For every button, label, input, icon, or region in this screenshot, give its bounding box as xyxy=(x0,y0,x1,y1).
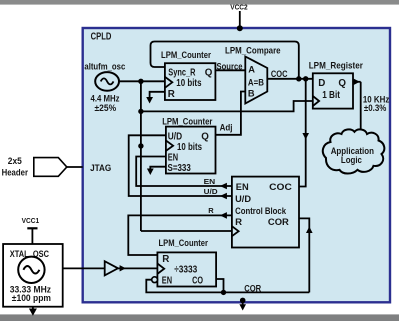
wire clock to control block xyxy=(141,230,232,232)
svg-text:Control Block: Control Block xyxy=(235,206,287,217)
register U3 xyxy=(313,73,353,108)
wire osc vertical xyxy=(140,81,142,231)
node clk junction 3 xyxy=(138,143,143,148)
wire buffer to counter clock xyxy=(118,267,157,269)
svg-text:S=333: S=333 xyxy=(168,163,192,174)
svg-text:÷3333: ÷3333 xyxy=(174,264,198,275)
svg-text:LPM_Register: LPM_Register xyxy=(309,61,364,71)
svg-text:A: A xyxy=(248,64,255,74)
svg-text:Q: Q xyxy=(201,132,209,143)
counter U6 (divide by 3333) xyxy=(152,252,216,286)
svg-text:2x5: 2x5 xyxy=(8,156,22,166)
svg-text:Sync_R: Sync_R xyxy=(168,67,195,78)
svg-text:U/D: U/D xyxy=(168,132,182,143)
node clk junction 1 xyxy=(138,79,143,84)
ground on CPLD bottom xyxy=(239,298,246,311)
CPLD box xyxy=(83,28,390,302)
svg-text:±0.3%: ±0.3% xyxy=(364,103,387,113)
svg-text:10 bits: 10 bits xyxy=(177,142,202,153)
svg-text:Logic: Logic xyxy=(341,154,362,165)
counter U4 (U/D 10 bits) xyxy=(166,127,216,174)
svg-text:R: R xyxy=(162,254,169,265)
svg-text:±25%: ±25% xyxy=(95,103,117,113)
node COC junction 2 xyxy=(303,76,308,81)
svg-text:altufm_osc: altufm_osc xyxy=(84,61,125,71)
wire U/D bus xyxy=(129,135,232,199)
svg-text:D: D xyxy=(318,78,325,89)
svg-text:4.4 MHz: 4.4 MHz xyxy=(91,94,121,104)
svg-text:10 bits: 10 bits xyxy=(176,78,202,89)
counter U1 (Sync_R 10 bits) xyxy=(165,63,216,100)
svg-text:COC: COC xyxy=(269,182,292,193)
ground at R of U1 xyxy=(146,92,165,104)
application logic cloud xyxy=(323,129,385,173)
wire register Q output xyxy=(353,79,361,132)
svg-text:B: B xyxy=(248,88,255,98)
svg-text:R: R xyxy=(168,89,175,100)
wire COC xyxy=(267,78,313,80)
svg-text:U/D: U/D xyxy=(204,187,219,196)
buffer U7 xyxy=(105,261,126,275)
svg-text:EN: EN xyxy=(204,177,216,186)
svg-text:LPM_Counter: LPM_Counter xyxy=(159,238,209,248)
svg-text:1 Bit: 1 Bit xyxy=(322,90,340,101)
svg-text:Source: Source xyxy=(217,61,243,71)
control block U5 xyxy=(232,177,299,248)
svg-text:Q: Q xyxy=(205,67,213,78)
svg-text:JTAG: JTAG xyxy=(90,163,111,173)
svg-text:EN: EN xyxy=(162,275,172,286)
comparator U2 xyxy=(245,57,267,104)
svg-text:EN: EN xyxy=(168,152,178,163)
svg-text:Q: Q xyxy=(338,78,346,89)
wire EN feedback and COR xyxy=(146,279,309,295)
svg-text:Header: Header xyxy=(2,168,29,178)
wire osc to counter clock xyxy=(119,80,165,82)
wire R bus xyxy=(128,206,232,255)
node COC junction 1 xyxy=(296,76,301,81)
svg-text:COR: COR xyxy=(268,217,289,228)
wire Adj xyxy=(216,92,246,135)
svg-text:LPM_Counter: LPM_Counter xyxy=(161,50,211,60)
svg-text:U/D: U/D xyxy=(235,194,251,205)
svg-text:±100 ppm: ±100 ppm xyxy=(12,293,51,303)
svg-text:CPLD: CPLD xyxy=(91,32,112,43)
svg-text:LPM_Counter: LPM_Counter xyxy=(162,117,213,127)
wire clock to register xyxy=(141,101,313,111)
svg-text:Adj: Adj xyxy=(220,123,233,133)
svg-text:VCC2: VCC2 xyxy=(230,3,248,12)
node clk junction 2 xyxy=(138,109,143,114)
wire JTAG xyxy=(67,166,83,168)
wire COC feedback loop xyxy=(151,42,299,79)
wire COC to control block xyxy=(299,79,309,187)
VCC1 xyxy=(22,216,39,244)
svg-text:COC: COC xyxy=(271,69,288,79)
svg-text:COR: COR xyxy=(244,284,262,294)
ground below XTAL_OSC xyxy=(29,307,37,316)
svg-text:VCC1: VCC1 xyxy=(22,216,39,225)
wire COR to control block xyxy=(299,218,313,292)
wire Source xyxy=(215,69,245,71)
oscillator altufm_osc xyxy=(84,61,125,113)
svg-text:R: R xyxy=(208,206,214,215)
oscillator XTAL_OSC xyxy=(3,244,63,307)
svg-text:EN: EN xyxy=(236,182,249,193)
wire EN bus xyxy=(136,157,232,190)
svg-text:LPM_Compare: LPM_Compare xyxy=(225,46,281,56)
VCC2 xyxy=(230,3,248,32)
svg-text:R: R xyxy=(235,217,242,228)
header J1 xyxy=(2,156,67,178)
ground at S of U4 xyxy=(147,167,166,175)
svg-text:CO: CO xyxy=(192,275,203,286)
svg-text:A=B: A=B xyxy=(248,78,264,88)
wire xtal to buffer xyxy=(45,267,105,269)
